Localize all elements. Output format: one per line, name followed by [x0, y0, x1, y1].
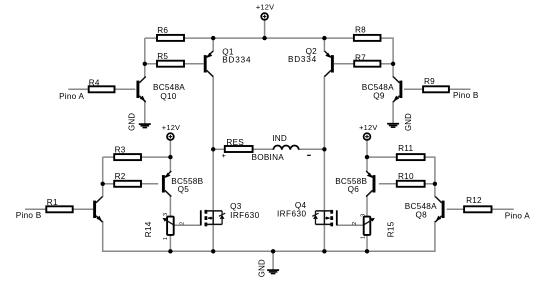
svg-text:BD334: BD334: [288, 55, 317, 64]
svg-text:Q9: Q9: [373, 92, 385, 101]
svg-text:R2: R2: [115, 172, 126, 181]
svg-text:BD334: BD334: [222, 56, 251, 65]
svg-text:Q5: Q5: [178, 185, 190, 194]
svg-text:GND: GND: [128, 113, 137, 131]
svg-text:Pino B: Pino B: [453, 91, 479, 100]
svg-text:RES: RES: [226, 138, 244, 147]
svg-text:+12V: +12V: [359, 123, 377, 132]
svg-text:BOBINA: BOBINA: [252, 153, 285, 162]
svg-text:R12: R12: [466, 196, 482, 205]
svg-text:Pino A: Pino A: [59, 92, 84, 101]
svg-text:R15: R15: [387, 221, 396, 237]
svg-text:Q6: Q6: [348, 185, 360, 194]
svg-text:1: 1: [163, 237, 169, 240]
svg-text:BC548A: BC548A: [153, 83, 185, 92]
svg-text:IRF630: IRF630: [277, 210, 307, 219]
svg-text:1: 1: [360, 236, 366, 239]
svg-text:3: 3: [360, 214, 366, 217]
svg-text:2: 2: [352, 222, 358, 225]
svg-text:R4: R4: [89, 78, 100, 87]
svg-text:R6: R6: [157, 26, 168, 35]
svg-text:R7: R7: [355, 53, 366, 62]
svg-text:+12V: +12V: [162, 123, 180, 132]
svg-text:Q10: Q10: [160, 92, 176, 101]
svg-text:R5: R5: [157, 52, 168, 61]
svg-text:R9: R9: [424, 77, 435, 86]
svg-text:R1: R1: [47, 198, 58, 207]
svg-text:IRF630: IRF630: [230, 211, 260, 220]
svg-text:R11: R11: [398, 144, 413, 153]
svg-text:Q8: Q8: [415, 210, 427, 219]
svg-text:2: 2: [179, 222, 185, 225]
svg-text:Pino B: Pino B: [16, 211, 42, 220]
svg-text:Q3: Q3: [230, 202, 242, 211]
svg-text:R10: R10: [398, 172, 414, 181]
svg-text:Pino A: Pino A: [505, 212, 530, 221]
svg-text:+12V: +12V: [256, 2, 274, 11]
svg-text:+: +: [222, 151, 227, 160]
svg-text:3: 3: [163, 213, 169, 216]
svg-text:GND: GND: [404, 113, 413, 131]
svg-text:IND: IND: [272, 134, 287, 143]
svg-text:GND: GND: [257, 259, 266, 277]
svg-text:R3: R3: [115, 146, 126, 155]
svg-text:R8: R8: [355, 25, 366, 34]
svg-text:R14: R14: [144, 221, 153, 237]
